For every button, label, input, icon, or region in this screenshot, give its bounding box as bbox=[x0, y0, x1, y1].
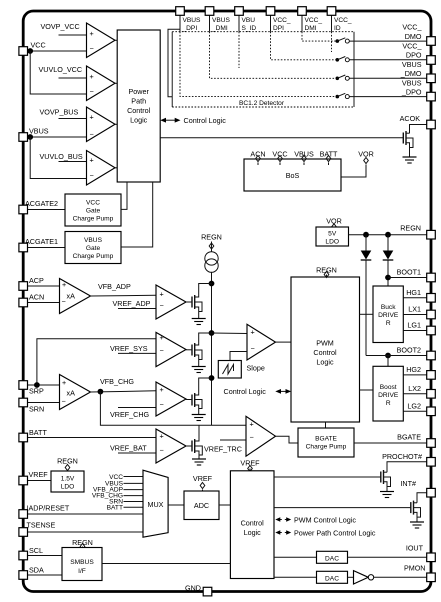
svg-text:ACGATE1: ACGATE1 bbox=[25, 237, 58, 246]
svg-text:INT#: INT# bbox=[400, 479, 416, 488]
wire SDA pin to SMBUS bbox=[28, 574, 63, 576]
wire LG1 bbox=[403, 330, 427, 332]
pin SRP bbox=[19, 381, 28, 390]
svg-text:SDA: SDA bbox=[29, 566, 44, 575]
ground at M3 source bbox=[192, 415, 206, 421]
svg-text:DMO: DMO bbox=[405, 32, 422, 41]
wire TSENSE pin to MUX bbox=[28, 531, 144, 533]
svg-text:1.5V: 1.5V bbox=[61, 476, 75, 483]
pin ACP bbox=[19, 282, 28, 291]
diode D2 to BOOT1 bbox=[383, 235, 394, 286]
pin LX1 bbox=[427, 310, 436, 319]
svg-text:+: + bbox=[160, 432, 164, 441]
wire U3 output to Power Path Control Logic bbox=[115, 123, 117, 125]
svg-text:Power: Power bbox=[129, 87, 150, 96]
node REGN diamond tap on SMBUS bbox=[80, 544, 85, 550]
wire VREF_SYS stub to E2 minus bbox=[118, 352, 156, 354]
wire SMBUS to Control Logic bbox=[102, 563, 230, 565]
svg-text:−: − bbox=[251, 344, 255, 353]
wire VFB_ADP from A1 to error amp E1 bbox=[91, 294, 157, 297]
wire VBUS_DPI solid route around BC1.2 box bbox=[168, 29, 180, 97]
svg-text:VCC_: VCC_ bbox=[402, 42, 422, 51]
diode D1 to BOOT2 bbox=[361, 235, 372, 356]
pin ACGATE2 bbox=[19, 205, 28, 214]
svg-text:Control: Control bbox=[127, 106, 151, 115]
svg-text:Charge Pump: Charge Pump bbox=[73, 216, 114, 223]
block DAC2 bbox=[317, 571, 348, 583]
wire Control Logic to Q2 gate bbox=[274, 476, 381, 478]
pin PMON bbox=[427, 573, 436, 582]
svg-text:+: + bbox=[160, 333, 164, 342]
current source I1 bbox=[205, 252, 218, 273]
svg-text:−: − bbox=[90, 44, 94, 53]
svg-text:+: + bbox=[62, 378, 66, 387]
transistor M1 bbox=[192, 284, 212, 319]
svg-text:VREF_ADP: VREF_ADP bbox=[113, 299, 151, 308]
svg-text:VBUS: VBUS bbox=[84, 237, 103, 244]
svg-text:−: − bbox=[90, 87, 94, 96]
svg-text:REGN: REGN bbox=[72, 538, 93, 547]
wire VCC stub to MUX bbox=[124, 476, 144, 478]
svg-text:VBUS: VBUS bbox=[294, 150, 314, 159]
node VREF diamond tap on Control Logic bbox=[248, 466, 253, 472]
comparator U4 VUVLO_BUS bbox=[87, 151, 116, 186]
svg-text:−: − bbox=[160, 346, 164, 355]
block Boost DRIVER bbox=[373, 366, 403, 421]
pin HG2 bbox=[427, 371, 436, 380]
wire DAC2 to buffer bbox=[348, 576, 354, 578]
transistor M4 bbox=[192, 425, 202, 459]
svg-text:5V: 5V bbox=[328, 231, 337, 238]
svg-text:VFB_CHG: VFB_CHG bbox=[100, 377, 134, 386]
svg-text:R: R bbox=[386, 400, 391, 407]
wire Control Logic to DAC1 bbox=[274, 556, 317, 558]
wire VOVP_VCC stub bbox=[59, 34, 87, 36]
transistor M3 bbox=[192, 378, 212, 415]
node ACN diamond tap bbox=[256, 156, 261, 166]
svg-text:VUVLO_VCC: VUVLO_VCC bbox=[39, 65, 83, 74]
block DAC1 bbox=[317, 551, 348, 563]
svg-text:VBU: VBU bbox=[242, 17, 256, 24]
amplifier A2 xA charge current sense bbox=[60, 375, 91, 410]
node REGN diamond tap bbox=[209, 242, 214, 253]
wire BATT pin to error amp E4 plus bbox=[28, 437, 157, 439]
wire PWM box to BGATE charge pump bbox=[325, 422, 327, 428]
transistor M2 bbox=[192, 333, 212, 367]
wire SW4 to VBUS_DPO pin bbox=[349, 96, 426, 98]
svg-text:−: − bbox=[250, 433, 254, 442]
svg-text:VREF_TRC: VREF_TRC bbox=[204, 445, 242, 454]
svg-text:−: − bbox=[90, 130, 94, 139]
wire Control Logic to Q3 gate bbox=[274, 507, 411, 509]
svg-text:SRN: SRN bbox=[29, 405, 44, 414]
svg-text:BOOT2: BOOT2 bbox=[397, 346, 421, 355]
svg-text:+: + bbox=[90, 72, 94, 81]
svg-text:VCC: VCC bbox=[31, 41, 46, 50]
pin VCC_DPI bbox=[266, 7, 275, 16]
svg-text:Boost: Boost bbox=[380, 384, 397, 391]
svg-text:LG1: LG1 bbox=[407, 321, 421, 330]
wire PWM box to Buck driver bbox=[360, 313, 374, 315]
pin BGATE bbox=[427, 439, 436, 448]
wire VCC_ID pin stub bbox=[331, 16, 333, 32]
wire rail dot2 to PWM comparator plus bbox=[212, 332, 248, 335]
pin HG1 bbox=[427, 294, 436, 303]
svg-text:LX1: LX1 bbox=[408, 305, 421, 314]
wire ADC to Control Logic bbox=[219, 504, 230, 506]
wire BOOT2 to pin bbox=[366, 355, 427, 357]
svg-text:DRIVE: DRIVE bbox=[378, 312, 399, 319]
block MUX bbox=[143, 470, 168, 537]
wire current source to rail bbox=[211, 272, 213, 425]
svg-text:IOUT: IOUT bbox=[406, 544, 424, 553]
pin BOOT2 bbox=[427, 351, 436, 360]
wire VBUS branch down to comparator U4 minus bbox=[30, 137, 86, 179]
svg-text:Gate: Gate bbox=[86, 245, 101, 252]
wire E2 output to M2 gate bbox=[186, 349, 192, 351]
block ADC bbox=[184, 491, 219, 520]
error amp E2 system voltage bbox=[156, 332, 186, 366]
svg-text:ACP: ACP bbox=[29, 276, 44, 285]
wire VREF pin to 1.5V LDO bbox=[28, 480, 52, 482]
block SMBUS I/F bbox=[62, 548, 102, 581]
svg-text:Power Path Control Logic: Power Path Control Logic bbox=[294, 529, 376, 538]
svg-text:ACGATE2: ACGATE2 bbox=[25, 199, 58, 208]
node rail junction dot 1 bbox=[209, 281, 215, 287]
node SRP junction dot bbox=[34, 382, 40, 388]
pin VBUS bbox=[19, 133, 28, 142]
amplifier A1 xA current sense bbox=[60, 279, 91, 314]
pin VBUS_DPI bbox=[176, 7, 185, 16]
svg-text:xA: xA bbox=[67, 388, 76, 397]
wire VCC branch down to comparator U2 minus bbox=[30, 51, 86, 94]
svg-text:VCC_: VCC_ bbox=[273, 17, 291, 24]
block BGATE Charge Pump bbox=[298, 428, 354, 457]
pin VCC bbox=[19, 47, 28, 56]
wire VFB_CHG stub to MUX bbox=[124, 495, 144, 497]
svg-text:VREF_CHG: VREF_CHG bbox=[110, 410, 150, 419]
error amp E3 charge voltage bbox=[156, 382, 186, 416]
svg-text:VBUS: VBUS bbox=[183, 17, 202, 24]
svg-text:+: + bbox=[90, 29, 94, 38]
svg-text:VFB_ADP: VFB_ADP bbox=[98, 282, 131, 291]
comparator CMP2 BGATE TRC bbox=[246, 416, 276, 456]
svg-text:DAC: DAC bbox=[325, 555, 339, 562]
wire U4 output to Power Path Control Logic bbox=[115, 167, 117, 169]
svg-text:LDO: LDO bbox=[61, 484, 75, 491]
svg-text:LX2: LX2 bbox=[408, 384, 421, 393]
svg-text:TSENSE: TSENSE bbox=[27, 521, 56, 530]
wire LX2 bbox=[403, 393, 427, 395]
ground at Q1 source bbox=[403, 157, 417, 163]
svg-text:BATT: BATT bbox=[107, 504, 123, 511]
svg-text:−: − bbox=[90, 171, 94, 180]
svg-text:LG2: LG2 bbox=[407, 402, 421, 411]
wire dashed tap VBUS_DPI into detector row4 bbox=[180, 32, 336, 97]
wire PROCHOT# pin to Q2 drain bbox=[387, 462, 427, 472]
wire INT# pin to Q3 drain bbox=[417, 493, 427, 503]
wire VFB_CHG branch down to TRC comparator bbox=[100, 392, 246, 426]
pin REGN bbox=[427, 230, 436, 239]
svg-text:Path: Path bbox=[131, 97, 146, 106]
wire LX1 bbox=[403, 314, 427, 316]
svg-text:VCC: VCC bbox=[272, 150, 287, 159]
wire dashed tap VCC_DMI into detector row1 bbox=[302, 32, 336, 41]
ground at Q3 source bbox=[410, 522, 424, 528]
svg-text:ACN: ACN bbox=[29, 293, 44, 302]
svg-text:VREF: VREF bbox=[193, 474, 213, 483]
svg-text:SMBUS: SMBUS bbox=[70, 559, 94, 566]
svg-text:Charge Pump: Charge Pump bbox=[73, 253, 114, 260]
node VREF diamond tap on ADC bbox=[200, 483, 205, 492]
svg-text:Control Logic: Control Logic bbox=[224, 387, 267, 396]
svg-text:BC1.2 Detector: BC1.2 Detector bbox=[239, 100, 285, 107]
node VOR diamond tap on LDO bbox=[332, 224, 337, 230]
svg-text:DMI: DMI bbox=[305, 25, 317, 32]
svg-text:+: + bbox=[90, 156, 94, 165]
svg-text:IADP/RESET: IADP/RESET bbox=[27, 504, 70, 513]
svg-text:DPI: DPI bbox=[273, 25, 284, 32]
pin ACOK bbox=[427, 120, 436, 129]
svg-text:VBUS: VBUS bbox=[402, 78, 422, 87]
svg-text:BGATE: BGATE bbox=[397, 433, 421, 442]
block Control Logic bbox=[230, 471, 274, 579]
svg-text:MUX: MUX bbox=[148, 500, 164, 509]
svg-text:Buck: Buck bbox=[381, 304, 396, 311]
wire VBUS_S_ID pin stub bbox=[238, 16, 240, 32]
wire Power Path Control Logic double arrow bbox=[278, 532, 282, 534]
svg-text:Logic: Logic bbox=[244, 528, 262, 537]
node REGN diamond tap on 1.5V LDO bbox=[65, 465, 70, 471]
pin SCL bbox=[19, 551, 28, 560]
wire dashed tap VCC_ID into detector bbox=[331, 32, 333, 52]
wire VUVLO_VCC stub bbox=[59, 77, 87, 79]
pin GND bbox=[203, 587, 212, 596]
svg-text:−: − bbox=[160, 446, 164, 455]
wire ACP pin to xA amp A1 bbox=[28, 285, 60, 287]
svg-text:S_ID: S_ID bbox=[242, 25, 257, 32]
wire Control Logic double arrow at Power Path box bbox=[162, 119, 178, 121]
svg-text:DPO: DPO bbox=[406, 51, 422, 60]
wire SW3 to VBUS_DMO pin bbox=[349, 77, 426, 79]
svg-text:−: − bbox=[62, 397, 66, 406]
wire VBUS_DMI pin stub bbox=[209, 16, 211, 32]
svg-text:ADC: ADC bbox=[194, 501, 209, 510]
wire HG1 bbox=[403, 297, 427, 299]
svg-text:PWM: PWM bbox=[316, 339, 334, 348]
transistor Q3 INT# open drain bbox=[411, 501, 421, 522]
wire dashed tap VBUS_S_ID into detector bbox=[238, 32, 240, 68]
block BC1.2 Detector dashed box bbox=[172, 32, 354, 107]
svg-text:VREF_BAT: VREF_BAT bbox=[110, 444, 147, 453]
svg-text:Slope: Slope bbox=[247, 364, 265, 373]
wire MUX to ADC bbox=[168, 504, 184, 506]
pin VBUS_DMI bbox=[205, 7, 214, 16]
node REGN diode junction 1 bbox=[363, 232, 369, 238]
wire U2 output to Power Path Control Logic bbox=[115, 82, 117, 84]
buffer B1 PMON bbox=[354, 571, 369, 584]
svg-text:SCL: SCL bbox=[29, 546, 43, 555]
svg-text:VBUS: VBUS bbox=[29, 127, 49, 136]
svg-text:−: − bbox=[160, 301, 164, 310]
wire Power Path box to Q1 gate bbox=[160, 137, 403, 139]
svg-text:VCC_: VCC_ bbox=[402, 23, 422, 32]
ground at Q2 source bbox=[380, 492, 394, 498]
wire SRP rail to E2 plus bbox=[37, 339, 156, 385]
node VBUS diamond tap bbox=[302, 156, 307, 166]
svg-text:SRP: SRP bbox=[29, 387, 44, 396]
ground at M1 source bbox=[192, 319, 206, 325]
svg-text:ID: ID bbox=[334, 25, 341, 32]
wire dashed tap VCC_DPI into detector row2 bbox=[271, 32, 336, 60]
wire CMP2 output to BGATE charge pump bbox=[276, 436, 299, 443]
wire PWM Control Logic double arrow bbox=[278, 519, 282, 521]
error amp E1 adapter current bbox=[156, 285, 186, 319]
svg-text:+: + bbox=[90, 113, 94, 122]
node rail junction dot 3 bbox=[209, 375, 215, 381]
transistor Q1 ACOK open drain bbox=[403, 131, 413, 157]
svg-text:_DMI: _DMI bbox=[211, 25, 228, 32]
wire BOOT2 into Boost driver bbox=[387, 356, 389, 367]
node VBUS junction dot bbox=[27, 134, 33, 140]
svg-text:R: R bbox=[386, 320, 391, 327]
svg-text:+: + bbox=[160, 385, 164, 394]
comparator U2 VUVLO_VCC bbox=[87, 66, 116, 101]
node VOR diamond tap bbox=[364, 158, 369, 164]
pin INT# bbox=[427, 488, 436, 497]
pin VCC_DMO bbox=[427, 37, 436, 46]
wire PWM box to Boost driver bbox=[360, 389, 374, 391]
node REGN diode junction 2 bbox=[385, 232, 391, 238]
wire CMP output to PWM logic bbox=[276, 341, 292, 343]
pin VBUS_DPO bbox=[427, 92, 436, 101]
node VCC diamond tap bbox=[278, 156, 283, 166]
svg-text:xA: xA bbox=[67, 291, 76, 300]
node rail junction dot 2 bbox=[209, 330, 215, 336]
svg-text:VOVP_VCC: VOVP_VCC bbox=[41, 22, 80, 31]
pin LX2 bbox=[427, 390, 436, 399]
wire SRN pin to xA amp A2 bbox=[28, 402, 60, 404]
svg-text:BATT: BATT bbox=[320, 150, 338, 159]
switch SW3 VBUS_DMO bbox=[336, 75, 350, 80]
pin TSENSE bbox=[19, 528, 28, 537]
block VBUS Gate Charge Pump bbox=[65, 232, 121, 264]
svg-text:Logic: Logic bbox=[316, 358, 334, 367]
svg-text:HG1: HG1 bbox=[406, 288, 421, 297]
wire VOR to BoS right side bbox=[341, 165, 366, 178]
block VCC Gate Charge Pump bbox=[65, 194, 121, 226]
pin VREF bbox=[19, 476, 28, 485]
wire HG2 bbox=[403, 374, 427, 376]
sawtooth glyph bbox=[223, 365, 234, 375]
wire BOOT1 to pin bbox=[388, 277, 427, 279]
wire SRN stub to MUX bbox=[124, 501, 144, 503]
wire buffer to PMON pin bbox=[374, 576, 427, 578]
wire ACOK pin to Q1 drain bbox=[410, 125, 427, 134]
wire 5V LDO to REGN pin bbox=[349, 234, 427, 236]
svg-text:VREF: VREF bbox=[29, 470, 49, 479]
comparator U1 VOVP_VCC bbox=[87, 23, 116, 58]
wire LG2 bbox=[403, 410, 427, 412]
wire SCL pin to SMBUS bbox=[28, 555, 63, 557]
pin LG2 bbox=[427, 407, 436, 416]
wire dashed tap VBUS_DMI into detector row3 bbox=[210, 32, 336, 79]
svg-text:BATT: BATT bbox=[29, 428, 47, 437]
pin VCC_ID bbox=[327, 7, 336, 16]
wire U1 output to Power Path Control Logic bbox=[115, 39, 117, 41]
svg-text:Charge Pump: Charge Pump bbox=[306, 444, 347, 451]
svg-text:PWM Control Logic: PWM Control Logic bbox=[294, 516, 356, 525]
svg-text:_DPO: _DPO bbox=[401, 87, 422, 96]
wire ACN pin to xA amp A1 bbox=[28, 302, 60, 304]
svg-text:VBUS: VBUS bbox=[212, 17, 231, 24]
svg-text:−: − bbox=[62, 297, 66, 306]
svg-text:I/F: I/F bbox=[78, 568, 86, 575]
wire ACGATE2 pin to VCC gate charge pump bbox=[28, 209, 66, 211]
comparator U3 VOVP_BUS bbox=[87, 107, 116, 142]
svg-text:_DMO: _DMO bbox=[400, 69, 422, 78]
wire VREF_ADP stub to E1 minus bbox=[118, 308, 156, 310]
block Power Path Control Logic bbox=[117, 30, 160, 182]
switch SW4 VBUS_DPO bbox=[336, 93, 350, 98]
block 1.5V LDO bbox=[51, 471, 84, 492]
svg-text:VOVP_BUS: VOVP_BUS bbox=[40, 108, 79, 117]
pin IOUT bbox=[427, 553, 436, 562]
pin BOOT1 bbox=[427, 273, 436, 282]
wire VCC gate charge pump to Power Path box bbox=[121, 182, 127, 209]
wire VREF_TRC stub to CMP2 minus bbox=[220, 439, 246, 441]
wire E3 output to M3 gate bbox=[186, 399, 192, 401]
svg-text:HG2: HG2 bbox=[406, 365, 421, 374]
svg-text:+: + bbox=[160, 289, 164, 298]
svg-text:PROCHOT#: PROCHOT# bbox=[382, 452, 422, 461]
pin VCC_DPO bbox=[427, 56, 436, 65]
svg-text:ACN: ACN bbox=[250, 150, 265, 159]
ground at M4 source bbox=[192, 459, 206, 465]
svg-text:+: + bbox=[250, 419, 254, 428]
wire VBUS stub to MUX bbox=[124, 482, 144, 484]
wire SW1 to VCC_DMO pin bbox=[349, 40, 426, 42]
svg-text:+: + bbox=[62, 280, 66, 289]
node BOOT2 junction dot bbox=[385, 353, 391, 359]
svg-text:Control Logic: Control Logic bbox=[184, 116, 227, 125]
svg-text:Control: Control bbox=[313, 348, 337, 357]
wire VREF_CHG stub to E3 minus bbox=[118, 407, 156, 409]
node BATT diamond tap bbox=[326, 156, 331, 166]
pin PROCHOT# bbox=[427, 458, 436, 467]
svg-text:REGN: REGN bbox=[201, 233, 222, 242]
node VFB_CHG junction dot bbox=[98, 389, 104, 395]
wire IADP/RESET pin to MUX bbox=[28, 513, 144, 515]
wire VCC pin to comparator U1 minus bbox=[28, 50, 87, 52]
svg-text:VCC: VCC bbox=[86, 200, 100, 207]
wire VBUS_DPI pin stub bbox=[179, 16, 181, 32]
svg-text:_DPI: _DPI bbox=[182, 25, 198, 32]
wire VCC_DPI pin stub bbox=[270, 16, 272, 32]
svg-text:LDO: LDO bbox=[325, 239, 339, 246]
svg-text:−: − bbox=[160, 400, 164, 409]
pin ACN bbox=[19, 298, 28, 307]
svg-text:VCC_: VCC_ bbox=[334, 17, 352, 24]
svg-text:BOOT1: BOOT1 bbox=[397, 268, 421, 277]
switch SW1 VCC_DMO bbox=[336, 38, 350, 43]
wire E1 output to M1 gate bbox=[186, 301, 192, 303]
svg-text:DRIVE: DRIVE bbox=[378, 392, 399, 399]
block PWM Control Logic bbox=[291, 277, 360, 422]
block Buck DRIVER bbox=[373, 286, 403, 343]
wire VBUS pin to comparator U3 minus bbox=[28, 136, 87, 138]
svg-text:PMON: PMON bbox=[404, 564, 426, 573]
